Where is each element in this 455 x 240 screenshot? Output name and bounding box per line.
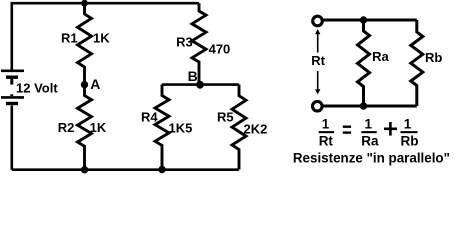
wire bottom rail: [12, 168, 239, 171]
svg-text:1K5: 1K5: [169, 120, 193, 135]
battery cell1 long plate: [1, 70, 24, 73]
junction dot Ra top: [360, 16, 367, 23]
svg-text:12 Volt: 12 Volt: [16, 81, 58, 96]
svg-text:1: 1: [322, 117, 330, 132]
svg-text:R1: R1: [61, 31, 78, 46]
svg-text:1K: 1K: [93, 31, 110, 46]
terminal circle bottom: [313, 101, 323, 111]
terminal circle top: [313, 16, 323, 26]
wire left rail lower: [11, 106, 14, 170]
battery cell2 stub top: [10, 94, 13, 96]
fraction 1/Rt bar: [319, 131, 334, 133]
right diagram wires: [323, 20, 423, 106]
junction dot Ra bottom: [360, 102, 367, 109]
wire node B horizontal: [162, 83, 239, 86]
svg-text:R5: R5: [217, 110, 234, 125]
fraction 1/Ra bar: [361, 131, 376, 133]
svg-text:470: 470: [209, 41, 231, 56]
svg-text:Rt: Rt: [319, 133, 334, 148]
Rt arrow upper segment: [315, 29, 320, 95]
fraction 1/Rb bar: [401, 131, 418, 133]
wire top rail: [12, 3, 199, 69]
battery B1 12 Volt: [1, 71, 24, 104]
svg-text:Rt: Rt: [311, 53, 325, 68]
svg-text:Ra: Ra: [372, 49, 389, 64]
svg-text:Rb: Rb: [401, 133, 419, 148]
equals sign: [343, 126, 351, 128]
svg-text:R4: R4: [141, 110, 158, 125]
resistor R2: [78, 85, 92, 170]
Rt arrow lower segment: [317, 71, 319, 90]
svg-text:Resistenze "in parallelo": Resistenze "in parallelo": [293, 151, 450, 166]
svg-text:B: B: [188, 68, 198, 84]
junction dot top of R1: [81, 0, 88, 7]
resistor R4: [155, 85, 169, 170]
svg-text:Rb: Rb: [425, 50, 442, 65]
junction dot bottom of R2: [81, 166, 88, 173]
battery cell1 short plate: [6, 75, 18, 78]
junction dot bottom of R4: [158, 166, 165, 173]
svg-text:A: A: [90, 76, 100, 92]
resistor R1: [78, 3, 92, 84]
svg-text:1K: 1K: [90, 120, 107, 135]
wire bottom rail right diagram: [323, 105, 417, 108]
svg-text:R3: R3: [176, 34, 193, 49]
battery cell2 long plate: [1, 96, 24, 99]
wire top rail right diagram: [323, 19, 417, 22]
node B junction dot: [196, 81, 204, 89]
resistor R5: [232, 85, 246, 170]
svg-text:1: 1: [365, 117, 373, 132]
svg-text:R2: R2: [58, 120, 75, 135]
svg-text:2K2: 2K2: [244, 121, 268, 136]
resistor R3: [192, 3, 206, 85]
svg-text:Ra: Ra: [361, 133, 379, 148]
resistor Ra: [358, 20, 370, 106]
node A junction dot: [81, 81, 88, 88]
battery cell1 stub: [10, 79, 13, 85]
battery cell2 short plate: [6, 102, 18, 105]
resistor Rb: [411, 20, 423, 106]
svg-text:1: 1: [404, 117, 412, 132]
plus sign: [384, 122, 397, 136]
